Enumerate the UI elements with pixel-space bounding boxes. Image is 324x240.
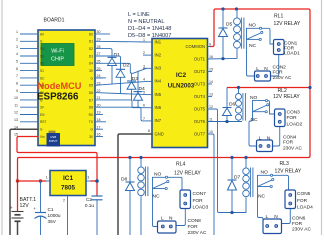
svg-text:LOAD1: LOAD1 [284, 51, 300, 57]
node +12V/D8 junction [128, 156, 131, 159]
svg-text:RST: RST [40, 120, 46, 124]
capacitor C1 1000u 35V [34, 181, 61, 235]
svg-text:NC: NC [251, 117, 259, 123]
IC2 right pin stubs 9-16 [208, 43, 214, 135]
svg-text:NC: NC [249, 43, 257, 49]
svg-text:230V AC: 230V AC [188, 230, 207, 235]
wire OUT6 to RL2 coil [208, 121, 243, 123]
svg-text:IC1: IC1 [63, 175, 74, 182]
wire IC2 GND pin8 to ground bus [118, 134, 152, 235]
svg-text:D6: D6 [229, 102, 236, 108]
svg-text:1: 1 [16, 30, 18, 34]
svg-text:5: 5 [16, 60, 18, 64]
capacitor C2 0.1u [85, 196, 103, 235]
svg-text:13: 13 [209, 93, 213, 97]
svg-text:BOARD1: BOARD1 [44, 17, 65, 23]
node battery/IC1 input junction [16, 179, 19, 182]
svg-text:RL2: RL2 [278, 88, 288, 94]
connector CON5 FOR LOAD4 [285, 190, 296, 209]
svg-text:D3: D3 [89, 54, 93, 58]
node +12V/RL1 coil junction [235, 7, 238, 10]
svg-text:IN6: IN6 [155, 105, 162, 110]
label CON3 [287, 109, 303, 127]
svg-text:16: 16 [209, 55, 213, 59]
svg-text:FOR: FOR [292, 221, 303, 227]
svg-text:FOR: FOR [287, 115, 298, 121]
svg-text:1: 1 [143, 38, 145, 42]
svg-text:1000u: 1000u [48, 213, 61, 218]
svg-text:RL1: RL1 [274, 14, 284, 20]
connector CON6 230V AC [263, 219, 282, 234]
svg-text:OUT1: OUT1 [194, 56, 206, 61]
svg-text:ULN2003: ULN2003 [168, 83, 195, 90]
svg-text:8: 8 [16, 81, 18, 85]
label L N CON6 [266, 214, 312, 233]
label L N CON8 [161, 216, 207, 237]
svg-text:IC2: IC2 [176, 72, 187, 79]
node C1 junction [39, 179, 42, 182]
svg-text:12: 12 [14, 111, 18, 115]
svg-text:COMMON: COMMON [185, 44, 205, 49]
svg-text:10: 10 [209, 130, 213, 134]
node +12V / RL2 rail junction [308, 86, 311, 89]
svg-text:D1: D1 [89, 40, 93, 44]
relay RL4 label [174, 162, 201, 177]
svg-text:35V: 35V [48, 219, 57, 224]
svg-text:OUT6: OUT6 [194, 119, 206, 124]
wire +12V rail to RL2 [227, 87, 310, 89]
relay RL4 contacts NO/NC [153, 172, 183, 227]
svg-text:9: 9 [16, 89, 18, 93]
wire GPIO D8 (pin20) to ULN2003 IN7 [95, 107, 147, 121]
node RL2 coil top junction [237, 86, 240, 89]
NodeMCU board BOARD1 ESP8266 [37, 17, 95, 146]
svg-text:D6: D6 [89, 91, 93, 95]
svg-text:FOR: FOR [273, 69, 284, 75]
svg-text:N: N [274, 214, 278, 220]
svg-text:CON6: CON6 [292, 215, 306, 221]
diode D2 1N4148 [116, 62, 130, 94]
svg-text:NO: NO [250, 95, 258, 101]
svg-text:FOR: FOR [193, 198, 204, 204]
svg-text:IN7: IN7 [155, 118, 162, 123]
svg-text:LOAD2: LOAD2 [287, 121, 303, 127]
connector CON8 230V AC [158, 221, 177, 233]
diode D3 1N4148 [127, 73, 138, 100]
svg-text:FOR: FOR [283, 140, 294, 146]
label L N CON4 [259, 134, 303, 151]
svg-text:12: 12 [209, 105, 213, 109]
wire CON1 pin2 to CON2 N [271, 55, 279, 77]
svg-text:3: 3 [16, 45, 18, 49]
node OUT6/D6 junction [225, 120, 228, 123]
svg-text:OUT2: OUT2 [194, 69, 206, 74]
svg-text:1: 1 [46, 176, 48, 180]
svg-text:FOR: FOR [188, 224, 199, 230]
node RL3 D7/coil junction [230, 211, 233, 214]
svg-text:D8: D8 [121, 177, 128, 183]
wire 3V3 (pin25) to diode D4 [95, 70, 102, 72]
svg-text:IN2: IN2 [155, 52, 162, 57]
wire OUT1 to RL1 coil [208, 57, 238, 60]
svg-text:C2: C2 [86, 197, 92, 202]
wire GPIO D3 (pin27) to diode D2 [95, 56, 121, 62]
relay RL3 coil 12V [243, 158, 253, 213]
svg-text:6: 6 [16, 67, 18, 71]
svg-text:7: 7 [143, 117, 145, 121]
svg-text:C1: C1 [48, 207, 54, 212]
svg-text:NO: NO [154, 172, 162, 178]
svg-text:0.1u: 0.1u [85, 203, 95, 208]
svg-text:CON7: CON7 [193, 191, 207, 197]
connector CON2 230V AC [255, 71, 271, 81]
svg-text:D8: D8 [89, 106, 93, 110]
wire GPIO D1 (pin29) to ULN2003 IN1 [95, 40, 147, 43]
wire OUT7 down off frame [208, 134, 215, 235]
relay RL1 coil 12V [234, 9, 244, 59]
svg-text:IN4: IN4 [155, 79, 162, 84]
svg-text:D5: D5 [226, 21, 233, 27]
svg-text:D7: D7 [89, 98, 93, 102]
svg-text:3: 3 [143, 64, 145, 68]
svg-text:5: 5 [143, 91, 145, 95]
svg-text:12V: 12V [20, 203, 30, 209]
svg-text:CON8: CON8 [188, 218, 202, 224]
svg-text:L: L [266, 214, 269, 220]
svg-text:12V RELAY: 12V RELAY [274, 21, 301, 27]
BOARD1 right pins 16-30 with numbers [89, 30, 110, 139]
BOARD1 left pins 1-15 with numbers [14, 30, 46, 139]
svg-text:4: 4 [143, 77, 145, 81]
svg-text:OUT4: OUT4 [194, 94, 206, 99]
wire battery + to IC1 input [18, 178, 47, 211]
svg-text:3: 3 [87, 176, 89, 180]
svg-text:2: 2 [143, 51, 145, 55]
svg-text:4: 4 [16, 52, 18, 56]
svg-text:VU: VU [40, 47, 45, 51]
svg-text:SC: SC [40, 76, 45, 80]
diode D7 1N4007 flyback [228, 158, 241, 213]
svg-text:RL4: RL4 [176, 162, 186, 168]
svg-text:CON4: CON4 [283, 134, 297, 140]
svg-text:11: 11 [209, 118, 213, 122]
svg-text:RL3: RL3 [280, 161, 290, 167]
svg-text:10: 10 [14, 96, 18, 100]
svg-text:D1–D4 = 1N4148: D1–D4 = 1N4148 [128, 26, 171, 32]
op-amp/driver IC2 ULN2003 [152, 39, 208, 148]
svg-text:14: 14 [209, 80, 213, 84]
wire CON7 pin2 to CON8 N [176, 209, 185, 226]
relay RL2 label [273, 88, 300, 100]
wire GPIO D5 (pin23) to ULN2003 IN4 [95, 81, 147, 85]
label L N CON2 [256, 64, 292, 81]
svg-text:IN1: IN1 [155, 39, 162, 44]
relay RL2 contacts NO/NC [249, 95, 275, 146]
wire pin24 G stub [95, 77, 103, 79]
wire +12V rail: battery to relays loop [18, 9, 311, 180]
wire GPIO D4 (pin26) to diode D3 [95, 63, 133, 73]
svg-text:N = NEUTRAL: N = NEUTRAL [128, 19, 165, 25]
svg-text:D2: D2 [89, 47, 93, 51]
svg-text:S1: S1 [40, 69, 44, 73]
svg-text:NO: NO [261, 170, 269, 176]
svg-text:22: 22 [97, 89, 101, 93]
svg-text:12V RELAY: 12V RELAY [174, 171, 201, 177]
relay RL1 label [274, 14, 301, 27]
wire GPIO D7 (pin21) to ULN2003 IN6 [95, 100, 147, 108]
svg-text:N: N [264, 66, 268, 72]
svg-text:D4: D4 [89, 62, 93, 66]
node +12V/D7 junction [230, 156, 233, 159]
svg-text:IN3: IN3 [155, 66, 162, 71]
svg-text:S3: S3 [40, 54, 44, 58]
svg-text:L: L [256, 66, 259, 72]
node OUT1/D5 junction [221, 57, 224, 60]
svg-text:2: 2 [16, 38, 18, 42]
relay RL3 contacts NO/NC [258, 170, 289, 220]
svg-text:15: 15 [209, 68, 213, 72]
svg-text:D0: D0 [89, 32, 93, 36]
svg-text:L: L [259, 135, 262, 141]
wire GPIO D6 (pin22) to ULN2003 IN5 [95, 93, 147, 95]
svg-text:11: 11 [14, 103, 18, 107]
svg-text:6: 6 [143, 104, 145, 108]
svg-text:D1: D1 [114, 52, 121, 58]
svg-text:NC: NC [153, 194, 161, 200]
svg-text:230V AC: 230V AC [292, 227, 311, 233]
label CON1 [284, 40, 300, 56]
node +12V/RL4 coil junction [139, 156, 142, 159]
relay RL2 coil 12V [236, 88, 246, 122]
svg-text:FOR: FOR [297, 198, 308, 204]
IC2 left pin stubs 1-8 [143, 38, 152, 133]
connector CON4 230V AC [257, 140, 273, 152]
svg-text:CHIP: CHIP [51, 56, 64, 62]
wire CON5 pin2 to CON6 N [282, 209, 291, 224]
svg-text:OUT7: OUT7 [194, 131, 206, 136]
svg-text:12V RELAY: 12V RELAY [273, 94, 300, 100]
svg-text:230V AC: 230V AC [283, 145, 302, 151]
regulator IC1 7805 [46, 171, 96, 236]
svg-text:Wi-Fi: Wi-Fi [51, 48, 64, 54]
svg-text:D3: D3 [132, 76, 139, 82]
diode D8 1N4007 flyback [121, 158, 135, 236]
svg-text:NC: NC [258, 194, 266, 200]
connector CON7 FOR LOAD3 [180, 190, 191, 209]
diode D6 1N4007 flyback [223, 88, 236, 122]
connector CON1 FOR LOAD1 [274, 40, 285, 55]
svg-text:CON3: CON3 [287, 109, 301, 115]
svg-text:13: 13 [14, 118, 18, 122]
svg-text:12V RELAY: 12V RELAY [275, 168, 302, 174]
svg-text:EN: EN [40, 113, 45, 117]
legend: L = LINE, N = NEUTRAL, diode types [128, 12, 171, 39]
relay RL1 contacts NO/NC [247, 23, 274, 77]
svg-text:D5: D5 [89, 84, 93, 88]
connector CON3 FOR LOAD2 [275, 109, 286, 127]
svg-text:FOR: FOR [284, 45, 295, 51]
label CON5 [297, 191, 313, 211]
svg-text:NO: NO [249, 23, 257, 29]
svg-text:LOAD4: LOAD4 [297, 205, 313, 211]
svg-text:OUT3: OUT3 [194, 81, 206, 86]
svg-text:Vin: Vin [40, 135, 45, 139]
svg-text:A0: A0 [40, 32, 44, 36]
svg-text:N: N [267, 135, 271, 141]
svg-text:8: 8 [148, 129, 150, 133]
label CON7 [193, 191, 209, 211]
svg-text:GND: GND [155, 131, 164, 136]
svg-text:CON5: CON5 [297, 191, 311, 197]
svg-text:OUT5: OUT5 [194, 106, 206, 111]
wire 5V: IC1 output to NodeMCU Vin [17, 137, 97, 196]
svg-text:IN5: IN5 [155, 92, 162, 97]
wire CON3 pin2 to CON4 N [273, 127, 280, 147]
wire OUT5 to RL3 coil [208, 109, 247, 213]
svg-text:INPUT: INPUT [49, 139, 58, 143]
wire IC2 COMMON pin9 stub [208, 46, 211, 48]
svg-text:7805: 7805 [61, 185, 76, 192]
svg-text:D7: D7 [234, 175, 241, 181]
diode D5 1N4007 flyback [219, 9, 233, 59]
svg-text:230V AC: 230V AC [273, 75, 292, 81]
wire GPIO D2 (pin28) to diode D1 [95, 49, 112, 51]
svg-text:S2: S2 [40, 62, 44, 66]
node +12V/RL3 coil junction [244, 156, 247, 159]
relay RL4 coil 12V [138, 158, 148, 236]
wire NodeMCU pin14 G to ground [10, 129, 38, 235]
diode D1 1N4148 [108, 50, 121, 84]
svg-text:L: L [161, 216, 164, 222]
svg-text:S0: S0 [40, 84, 44, 88]
svg-text:N: N [169, 216, 173, 222]
svg-text:7: 7 [16, 74, 18, 78]
svg-text:LOAD3: LOAD3 [193, 205, 209, 211]
relay RL3 label [275, 161, 302, 174]
svg-text:NodeMCU: NodeMCU [38, 81, 82, 91]
node +12V/D5 junction [221, 7, 224, 10]
svg-text:L = LINE: L = LINE [128, 12, 150, 18]
svg-text:2: 2 [63, 199, 65, 203]
battery BATT.1 12V [10, 197, 37, 235]
node IC1 output/C2 junction [95, 179, 99, 183]
diode D4 1N4148 [134, 71, 146, 107]
